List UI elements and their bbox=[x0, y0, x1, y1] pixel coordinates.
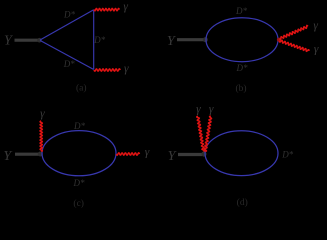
svg-text:(a): (a) bbox=[76, 83, 87, 94]
svg-text:D*: D* bbox=[63, 59, 75, 69]
photon top (a) bbox=[94, 9, 119, 11]
vertex dot (b) bbox=[203, 37, 208, 42]
svg-text:γ: γ bbox=[124, 63, 129, 75]
svg-text:D*: D* bbox=[236, 63, 248, 73]
photon bottom (a) bbox=[94, 69, 120, 71]
svg-text:γ: γ bbox=[314, 44, 319, 56]
photon right (c) bbox=[116, 153, 139, 155]
photon right (d) bbox=[205, 116, 212, 152]
D* propagator lower (a) bbox=[40, 40, 94, 69]
vertex dot (c) bbox=[38, 152, 43, 157]
svg-text:γ: γ bbox=[313, 20, 318, 32]
svg-text:γ: γ bbox=[196, 104, 201, 116]
D* loop ellipse (c) bbox=[42, 131, 116, 176]
photon lower (b) bbox=[280, 40, 310, 51]
svg-text:(d): (d) bbox=[237, 197, 248, 208]
D* loop ellipse (d) bbox=[205, 131, 278, 176]
svg-text:(b): (b) bbox=[235, 83, 246, 94]
D* propagator upper (a) bbox=[40, 10, 94, 40]
photon left (d) bbox=[197, 116, 205, 152]
D* loop ellipse (b) bbox=[206, 18, 278, 62]
wire Upsilon line (a) bbox=[15, 39, 39, 42]
D* propagator vertical (a) bbox=[93, 10, 95, 70]
vertex dot (d) bbox=[201, 151, 206, 156]
svg-text:γ: γ bbox=[209, 104, 214, 116]
svg-text:D*: D* bbox=[281, 149, 293, 159]
svg-text:D*: D* bbox=[73, 178, 85, 188]
svg-text:D*: D* bbox=[73, 121, 85, 131]
svg-text:γ: γ bbox=[40, 108, 45, 120]
svg-text:γ: γ bbox=[123, 1, 128, 13]
svg-text:(c): (c) bbox=[73, 198, 84, 209]
svg-text:D*: D* bbox=[235, 6, 247, 16]
wire Upsilon line (d) bbox=[178, 153, 202, 156]
photon vertical (c) bbox=[40, 121, 42, 152]
svg-text:D*: D* bbox=[63, 10, 75, 20]
svg-text:γ: γ bbox=[145, 147, 150, 159]
photon upper (b) bbox=[280, 26, 309, 40]
wire Upsilon line (b) bbox=[177, 38, 204, 41]
vertex dot (a) bbox=[37, 38, 42, 43]
photon vertex dot (b) bbox=[277, 38, 281, 42]
wire Upsilon line (c) bbox=[15, 153, 39, 156]
svg-text:D*: D* bbox=[93, 35, 105, 45]
